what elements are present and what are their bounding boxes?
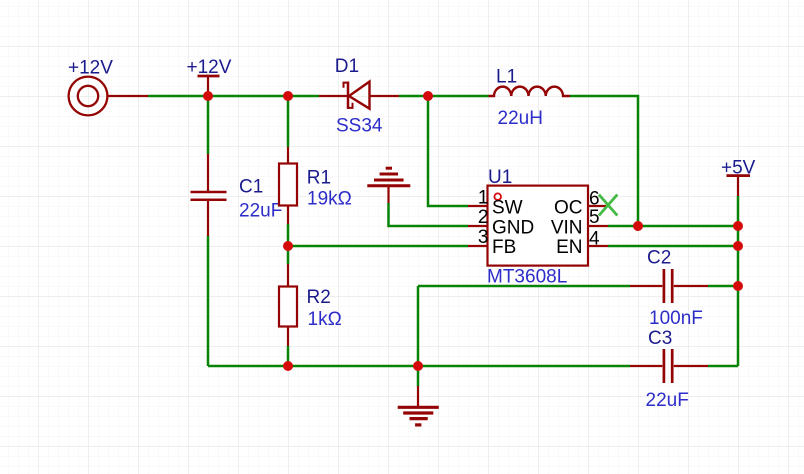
pin 6 OC stub — [588, 205, 606, 207]
wire FB line to pin 3 — [288, 245, 468, 248]
junction EN / +5V rail — [733, 241, 743, 251]
svg-text:R2: R2 — [307, 287, 331, 308]
power flag +12V — [198, 76, 220, 96]
pin-1 indicator circle — [494, 193, 501, 200]
svg-text:R1: R1 — [307, 168, 331, 189]
wire +5V rail vertical — [737, 196, 740, 366]
svg-text:SW: SW — [492, 198, 523, 219]
junction ground rail — [413, 361, 423, 371]
wire D1 anode to L1 — [399, 95, 489, 98]
resistor R1 19k — [279, 147, 297, 224]
svg-text:SS34: SS34 — [336, 115, 383, 136]
wire bottom ground rail — [208, 365, 630, 368]
wire +12V top rail left — [148, 95, 319, 98]
wire R1 top — [287, 96, 290, 147]
svg-text:C2: C2 — [647, 247, 671, 268]
resistor R2 1k — [279, 264, 297, 346]
svg-text:MT3608L: MT3608L — [487, 267, 567, 288]
pin 1 SW stub — [468, 205, 488, 207]
wire ground stub bottom — [417, 366, 420, 386]
pin 5 VIN stub — [588, 225, 608, 227]
wire R2 bottom — [287, 346, 290, 366]
svg-text:4: 4 — [589, 228, 600, 249]
wire C2 right to rail — [708, 285, 738, 288]
wire C3 right to rail corner — [708, 365, 738, 368]
junction C2 / +5V rail — [733, 281, 743, 291]
wire VIN line to +5V rail — [608, 225, 738, 228]
wire ground to pin 2 — [389, 203, 469, 226]
svg-text:19kΩ: 19kΩ — [307, 189, 352, 210]
capacitor C2 100nF — [630, 269, 708, 303]
ground symbol (bottom rail) — [398, 386, 439, 425]
wire SW net to pin 1 — [428, 96, 468, 206]
op-amp / IC U1 MT3608L body — [488, 186, 589, 266]
wire C2 left segment — [418, 285, 630, 288]
svg-text:+12V: +12V — [68, 57, 113, 78]
svg-text:2: 2 — [478, 207, 489, 228]
junction D1 / SW — [423, 91, 433, 101]
wire L1 to VIN corner — [570, 96, 638, 226]
capacitor C1 22uF — [191, 154, 227, 236]
svg-text:1: 1 — [478, 188, 489, 209]
svg-text:1kΩ: 1kΩ — [308, 309, 342, 330]
svg-text:U1: U1 — [488, 167, 512, 188]
ground symbol (at U1 GND pin, inverted) — [367, 168, 410, 203]
svg-text:22uH: 22uH — [498, 108, 543, 129]
junction FB node — [283, 241, 293, 251]
svg-text:5: 5 — [589, 207, 600, 228]
pin 3 FB stub — [468, 245, 488, 247]
svg-text:FB: FB — [492, 237, 516, 258]
svg-text:100nF: 100nF — [649, 308, 703, 329]
svg-text:+5V: +5V — [721, 158, 756, 179]
pin 4 EN stub — [588, 245, 608, 247]
svg-text:22uF: 22uF — [646, 390, 689, 411]
svg-text:22uF: 22uF — [239, 200, 282, 221]
diode D1 SS34 (schottky) — [319, 82, 399, 110]
inductor L1 22uH — [489, 87, 571, 96]
junction R2 bottom — [283, 361, 293, 371]
wire C2 drop to ground rail — [417, 286, 420, 366]
svg-text:OC: OC — [554, 198, 583, 219]
wire EN line to +5V rail — [608, 245, 738, 248]
svg-text:D1: D1 — [335, 56, 359, 77]
junction L1 / VIN — [633, 221, 643, 231]
junction R1 top — [283, 91, 293, 101]
connector P1 +12V input — [69, 77, 148, 116]
svg-text:C1: C1 — [239, 176, 263, 197]
capacitor C3 22uF — [630, 349, 708, 383]
junction VIN / +5V rail — [733, 221, 743, 231]
svg-text:EN: EN — [556, 237, 582, 258]
power flag +5V — [727, 176, 751, 196]
svg-text:VIN: VIN — [551, 218, 583, 239]
svg-text:6: 6 — [589, 188, 600, 209]
svg-text:GND: GND — [492, 218, 534, 239]
wire R1 bottom / node FB — [287, 224, 290, 246]
wire C1 bottom to rail — [207, 236, 210, 366]
no-connect cross on pin 6 — [599, 195, 617, 216]
junction +12V / C1 — [203, 91, 213, 101]
svg-text:+12V: +12V — [187, 57, 232, 78]
pin 2 GND stub — [468, 225, 488, 227]
svg-text:C3: C3 — [648, 328, 672, 349]
svg-text:3: 3 — [478, 227, 489, 248]
wire R2 top — [287, 246, 290, 264]
svg-text:L1: L1 — [496, 67, 517, 88]
wire C1 top — [207, 96, 210, 154]
